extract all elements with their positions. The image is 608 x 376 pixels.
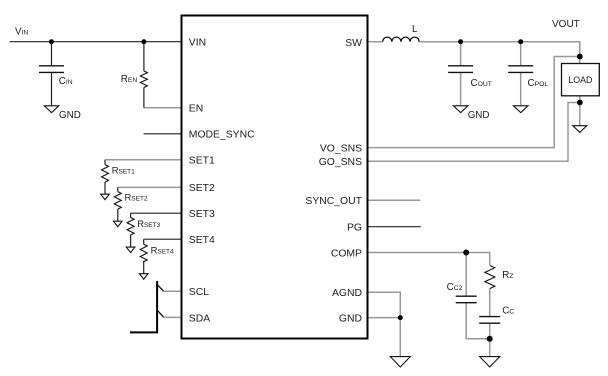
svg-text:LOAD: LOAD	[568, 75, 592, 85]
svg-text:VIN: VIN	[189, 38, 206, 49]
svg-text:CPOL: CPOL	[528, 78, 549, 89]
svg-text:RSET4: RSET4	[151, 245, 174, 256]
svg-text:GND: GND	[468, 110, 490, 121]
svg-text:MODE_SYNC: MODE_SYNC	[189, 129, 255, 140]
svg-text:PG: PG	[347, 223, 362, 234]
svg-text:CC2: CC2	[447, 282, 463, 293]
svg-text:AGND: AGND	[332, 288, 362, 299]
svg-text:SYNC_OUT: SYNC_OUT	[305, 196, 362, 207]
svg-text:EN: EN	[189, 103, 203, 114]
svg-text:SET1: SET1	[189, 156, 215, 167]
svg-text:SDA: SDA	[189, 313, 210, 324]
svg-text:REN: REN	[121, 74, 138, 85]
svg-text:L: L	[412, 24, 418, 35]
svg-text:CC: CC	[502, 305, 514, 316]
svg-text:SW: SW	[345, 38, 362, 49]
svg-text:COUT: COUT	[471, 78, 492, 89]
svg-text:SET2: SET2	[189, 183, 215, 194]
svg-text:COMP: COMP	[331, 248, 362, 259]
svg-text:SET3: SET3	[189, 209, 215, 220]
svg-text:GO_SNS: GO_SNS	[319, 157, 362, 168]
svg-text:RZ: RZ	[502, 270, 513, 281]
svg-text:CIN: CIN	[59, 76, 73, 87]
svg-text:GND: GND	[339, 313, 362, 324]
svg-text:VIN: VIN	[15, 27, 28, 38]
svg-text:SET4: SET4	[189, 235, 215, 246]
svg-text:RSET1: RSET1	[112, 164, 135, 175]
svg-text:GND: GND	[59, 110, 81, 121]
svg-text:VO_SNS: VO_SNS	[320, 143, 362, 154]
svg-text:VOUT: VOUT	[552, 19, 580, 30]
svg-text:RSET2: RSET2	[125, 192, 148, 203]
svg-text:RSET3: RSET3	[137, 218, 160, 229]
svg-text:SCL: SCL	[189, 287, 209, 298]
